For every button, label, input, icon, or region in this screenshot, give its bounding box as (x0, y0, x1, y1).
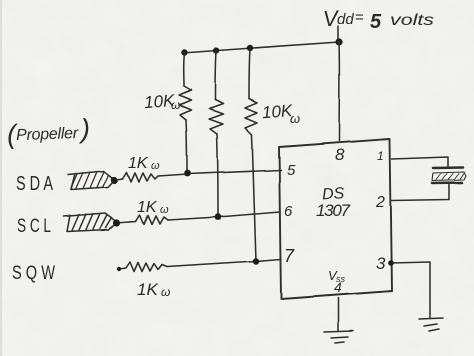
wire pin8 vertical (338, 42, 340, 141)
wire R6 to pin 7 (167, 259, 281, 267)
wire SDA plug to R4 (114, 179, 123, 181)
resistor R5 1K SCL (136, 215, 168, 225)
label Vdd = 5 volts (322, 5, 434, 33)
connector SCL hatched plug (63, 213, 118, 232)
label (Propeller) (6, 114, 90, 150)
resistor R3 10K (245, 99, 257, 135)
wire SQW stub to R6 (119, 268, 126, 269)
svg-text:ω: ω (151, 160, 160, 172)
wire pin4 Vss to ground (337, 298, 339, 331)
resistor R1 10K (179, 86, 191, 120)
node SQW start (117, 267, 121, 271)
ground center (324, 331, 353, 332)
wire R3 to SQW node (252, 135, 256, 261)
svg-text:volts: volts (390, 12, 434, 29)
capacitor crystal Y1 top plate (433, 166, 463, 169)
capacitor crystal Y1 bottom plate (432, 182, 462, 185)
svg-text:1K: 1K (137, 280, 158, 299)
connector SDA hatched plug (68, 171, 115, 190)
IC U1 DS1307 body (279, 139, 392, 299)
svg-text:1K: 1K (137, 199, 158, 216)
node junction R1-SDA (184, 170, 191, 177)
svg-text:7: 7 (284, 246, 295, 266)
node junction R3-SQW (253, 258, 259, 264)
resistor R4 1K SDA (123, 172, 158, 182)
node pin3 (388, 260, 394, 266)
svg-text:5: 5 (370, 11, 382, 33)
svg-text:1307: 1307 (316, 201, 351, 220)
wire R1 to SDA node (186, 120, 187, 172)
svg-text:S Q W: S Q W (12, 263, 55, 284)
svg-text:S C L: S C L (17, 216, 51, 237)
svg-text:5: 5 (287, 162, 296, 179)
svg-text:ω: ω (171, 98, 180, 112)
scanner edge left (0, 0, 2, 356)
svg-text:8: 8 (335, 145, 345, 164)
wire bus to R3 (249, 48, 250, 99)
wire bus to R1 (183, 53, 186, 86)
wire top bus Vdd (182, 42, 339, 53)
svg-text:3: 3 (376, 254, 386, 273)
svg-text:ω: ω (160, 204, 169, 216)
svg-text:=: = (355, 9, 364, 26)
wire bus to R2 (215, 51, 216, 100)
wire R4 to pin 5 (158, 170, 281, 176)
svg-text:10K: 10K (261, 101, 293, 122)
wire R2 to SCL node (217, 134, 218, 217)
wire pin1 to crystal (392, 157, 448, 166)
node junction bus-R1 (181, 49, 187, 55)
node SCL plug tip (113, 219, 120, 226)
resistor R2 10K (209, 100, 223, 134)
wire SCL plug to R5 (116, 222, 136, 224)
crystal Y1 hatching (436, 174, 464, 181)
resistor R6 1K SQW (126, 262, 167, 272)
svg-text:S D A: S D A (16, 173, 53, 195)
wire pin3 to ground (391, 262, 430, 318)
svg-text:4: 4 (334, 279, 342, 295)
node junction bus-R2 (213, 47, 219, 53)
node junction bus-R3 (247, 45, 253, 51)
svg-text:dd: dd (337, 11, 354, 28)
node junction R2-SCL (215, 214, 222, 221)
svg-text:Propeller: Propeller (16, 125, 79, 144)
wire Vdd stub (337, 26, 339, 42)
ground right (419, 318, 443, 319)
svg-text:2: 2 (375, 194, 385, 211)
svg-text:ω: ω (290, 111, 300, 126)
crystal Y1 body (432, 172, 466, 181)
node SDA plug tip (111, 176, 118, 183)
svg-text:ω: ω (161, 285, 170, 299)
node junction bus-pin8 (335, 38, 342, 45)
wire R5 to pin 6 (168, 212, 280, 220)
wire pin2 from crystal (392, 185, 449, 201)
svg-text:6: 6 (284, 203, 293, 220)
svg-text:1K: 1K (128, 155, 149, 172)
svg-text:1: 1 (377, 149, 384, 163)
